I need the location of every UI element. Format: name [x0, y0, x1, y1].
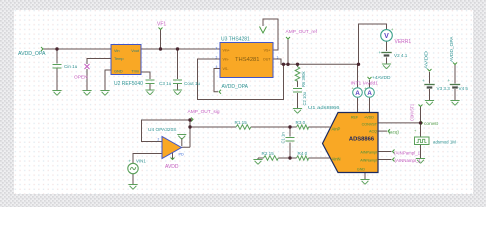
svg-text:A: A	[355, 90, 360, 97]
svg-text:R4 0: R4 0	[298, 151, 308, 156]
svg-text:V: V	[384, 33, 389, 40]
wire: ADS8866 GND stub	[364, 173, 366, 180]
svg-text:ADS8866: ADS8866	[349, 137, 375, 143]
net label AVDD (vertical)	[424, 50, 432, 71]
svg-text:(AINPampl_1: (AINPampl_1	[394, 151, 421, 156]
wire: sine source to ground	[132, 174, 134, 185]
svg-text:VS-: VS-	[223, 67, 230, 71]
wire: lower rail ground stub	[257, 158, 259, 160]
svg-text:(acq): (acq)	[389, 130, 400, 135]
resistor R3 0	[297, 125, 309, 129]
net label AVDD_OPA (under THS4281)	[219, 84, 249, 94]
svg-text:AMP_OUT_ref: AMP_OUT_ref	[286, 29, 318, 35]
net label (AINPampl_1	[393, 150, 421, 156]
resistor R6 390k	[295, 67, 300, 82]
svg-text:Cin 1u: Cin 1u	[64, 64, 78, 69]
wire: REF5040 GND stub	[105, 70, 111, 91]
wire: signal rail AinP	[190, 126, 330, 128]
schematic canvas with grid dots	[14, 10, 473, 194]
capacitor C3	[146, 80, 155, 84]
svg-text:+: +	[448, 78, 451, 83]
svg-text:AVDD_OPA: AVDD_OPA	[222, 84, 249, 90]
svg-text:Vin+: Vin+	[223, 49, 230, 53]
svg-text:C3 1u: C3 1u	[159, 81, 172, 86]
svg-text:Vin: Vin	[114, 48, 120, 53]
svg-text:AinN: AinN	[332, 157, 341, 162]
wire: THS4281 output to REF rail	[273, 59, 359, 64]
net label AVDD (OPA320 supply)	[165, 158, 179, 171]
svg-text:Vin-: Vin-	[223, 58, 230, 62]
op-amp U4 OPA320	[148, 127, 184, 158]
wire: R6/C2 chain	[297, 64, 299, 108]
capacitor C1 1n	[286, 138, 295, 142]
resistor R2 15	[264, 156, 279, 161]
svg-text:AinP: AinP	[332, 126, 341, 131]
svg-text:+: +	[129, 159, 132, 164]
svg-text:PD: PD	[179, 153, 185, 157]
voltage source V4 5	[448, 78, 469, 91]
svg-text:Trim: Trim	[131, 68, 139, 73]
svg-text:THS4281: THS4281	[235, 57, 260, 63]
wire: sine source to +input	[133, 154, 162, 164]
wire: THS4281 feedback loop	[198, 59, 284, 100]
ground under V3	[425, 101, 434, 106]
capacitor C2 10u	[293, 89, 302, 93]
wire: VF1 stub	[160, 30, 162, 50]
ground under V4	[450, 101, 459, 106]
voltmeter VERR1	[381, 27, 412, 45]
svg-text:Temp: Temp	[114, 56, 124, 61]
svg-text:R2 15: R2 15	[262, 151, 275, 156]
ADC U1 ADS8866	[308, 105, 378, 173]
svg-text:ACQ: ACQ	[369, 130, 377, 134]
ground above OPA320 (V-)	[177, 135, 186, 140]
svg-text:+4AVDD: +4AVDD	[372, 75, 391, 81]
svg-text:AINPampl: AINPampl	[360, 151, 377, 155]
wire: V2 to ground	[386, 42, 388, 65]
svg-text:AVDD_OPA: AVDD_OPA	[18, 51, 46, 57]
net label convst	[421, 121, 439, 127]
svg-text:+VDD: +VDD	[364, 116, 374, 120]
wire: CONVST net	[378, 107, 421, 123]
svg-text:U1 ads8866: U1 ads8866	[308, 105, 340, 111]
wire: REF5040 Temp stub to OPEN	[87, 59, 111, 91]
ground at lower rail left	[253, 160, 262, 165]
wire: AINNampl stub	[378, 159, 392, 161]
wire: Trim stub to C3	[141, 72, 150, 90]
net label VF1	[157, 22, 166, 30]
svg-text:Cout 1u: Cout 1u	[184, 81, 201, 86]
wire: C1 drop	[289, 127, 291, 158]
svg-text:convst: convst	[424, 121, 439, 127]
net label AMP_OUT_sig	[188, 109, 220, 122]
wire: ACQ stub	[378, 130, 387, 132]
svg-text:VS+: VS+	[264, 49, 271, 53]
svg-text:U4 OPA320S: U4 OPA320S	[148, 127, 176, 133]
ground under ADS8866	[360, 180, 369, 185]
sine source VIN1	[128, 159, 147, 174]
svg-text:VERR1: VERR1	[395, 39, 412, 45]
capacitor Cout	[173, 80, 182, 84]
svg-text:R1 15: R1 15	[235, 120, 248, 125]
svg-text:OUT: OUT	[263, 58, 271, 62]
wire: OPA320 V- ground stub	[181, 138, 183, 146]
wire: REF pin through ammeter A1	[357, 64, 359, 112]
svg-text:REF: REF	[351, 116, 359, 120]
wire: OPA320 output riser	[182, 120, 191, 147]
ground under C3	[145, 90, 154, 95]
svg-text:AVDD: AVDD	[165, 164, 179, 170]
net label (acq)	[388, 129, 399, 134]
wire: Cin drop	[56, 49, 58, 91]
net label AMP_OUT_ref	[286, 29, 318, 39]
open marker X on Temp	[85, 64, 90, 69]
svg-text:Vout: Vout	[131, 48, 140, 53]
svg-text:VIN1: VIN1	[136, 159, 146, 164]
svg-text:V4 5: V4 5	[459, 86, 469, 91]
svg-text:OPEN: OPEN	[74, 75, 88, 81]
svg-text:A: A	[367, 90, 372, 97]
svg-text:AMP_OUT_sig: AMP_OUT_sig	[188, 109, 220, 115]
svg-text:+: +	[379, 50, 382, 55]
wire: AINPampl stub	[378, 151, 392, 153]
svg-text:adsmod 1M: adsmod 1M	[433, 139, 456, 144]
svg-text:2: 2	[216, 56, 218, 60]
svg-text:U3 THS4281: U3 THS4281	[221, 37, 250, 43]
svg-text:V2 4.1: V2 4.1	[394, 53, 408, 58]
pin number marks	[158, 47, 279, 142]
svg-text:(AINNampl_1: (AINNampl_1	[395, 158, 422, 163]
voltage source V3 3.3	[422, 78, 450, 91]
net label AVDD_OPA (vertical)	[449, 36, 457, 65]
svg-text:AVDD_OPA: AVDD_OPA	[449, 36, 455, 62]
wire: +VDD pin through ammeter A2	[369, 80, 371, 113]
resistor R1 15	[236, 125, 251, 130]
svg-text:AINNampl: AINNampl	[360, 158, 377, 162]
ground under C2	[293, 109, 302, 114]
wire: Vout rail to THS4281	[141, 48, 220, 50]
ground under OPEN stub	[82, 91, 91, 96]
svg-text:GND: GND	[357, 168, 366, 172]
ground under VIN1	[128, 185, 137, 190]
resistor R4 0	[297, 156, 309, 160]
wire: AVDD_OPA rail into REF5040 Vin	[43, 48, 111, 50]
svg-text:R6 390k: R6 390k	[301, 70, 306, 87]
svg-text:V3 3.3: V3 3.3	[437, 86, 451, 91]
op-amp U3 THS4281	[220, 37, 273, 78]
capacitor Cin	[53, 65, 62, 69]
ground under Cout	[173, 90, 182, 95]
svg-text:INT1 IAvdd1: INT1 IAvdd1	[351, 81, 379, 87]
wire: AMP_OUT_ref stub	[287, 39, 289, 64]
wire: clock source chain	[420, 123, 422, 159]
wire: VERR1 branch	[359, 24, 387, 64]
wire: V4 column	[454, 65, 456, 101]
wire: V3 column	[429, 72, 431, 101]
net label CONVST1 (vertical)	[410, 104, 423, 121]
voltage source V2 4.1	[379, 50, 408, 58]
wire: THS4281 V+ top riser to jumper arrow	[263, 19, 278, 50]
jumper arrow (V+ supply)	[260, 27, 267, 34]
net label (AINNampl_1	[393, 158, 422, 164]
svg-text:GND: GND	[114, 68, 123, 73]
ground under Cin	[52, 91, 61, 96]
svg-text:C1 1n: C1 1n	[281, 132, 286, 144]
ammeter A2 (avdd current)	[364, 85, 374, 97]
voltage reference U2 REF5040	[111, 45, 143, 88]
svg-text:+: +	[422, 78, 425, 83]
svg-text:CONVST: CONVST	[362, 122, 378, 126]
svg-text:3: 3	[216, 47, 218, 51]
svg-text:R3 0: R3 0	[296, 120, 306, 125]
wire: Cout drop	[177, 49, 179, 90]
ground under REF5040 GND	[100, 91, 109, 96]
wire: lower rail AinN	[258, 157, 330, 159]
svg-text:1: 1	[277, 56, 279, 60]
ground under clock source	[416, 159, 425, 164]
wire: OPA320 feedback loop	[142, 120, 191, 142]
svg-text:2: 2	[158, 138, 160, 142]
svg-text:U2 REF5040: U2 REF5040	[114, 81, 143, 87]
net label AVDD_OPA (left)	[18, 47, 46, 57]
wire: VS- to AVDD_OPA bracket	[214, 69, 220, 92]
net label +4AVDD	[368, 75, 391, 81]
ammeter A1 (ref current)	[352, 85, 363, 97]
ground under V2	[382, 64, 391, 69]
svg-text:4: 4	[216, 65, 218, 69]
svg-text:C2 10u: C2 10u	[302, 91, 307, 105]
svg-text:CONVST1: CONVST1	[410, 104, 415, 121]
svg-text:VF1: VF1	[157, 22, 166, 28]
wire: OPA320 V+ AVDD stub	[172, 153, 174, 159]
clock source adsmod 1M	[415, 137, 457, 145]
svg-text:AVDD: AVDD	[424, 50, 430, 69]
